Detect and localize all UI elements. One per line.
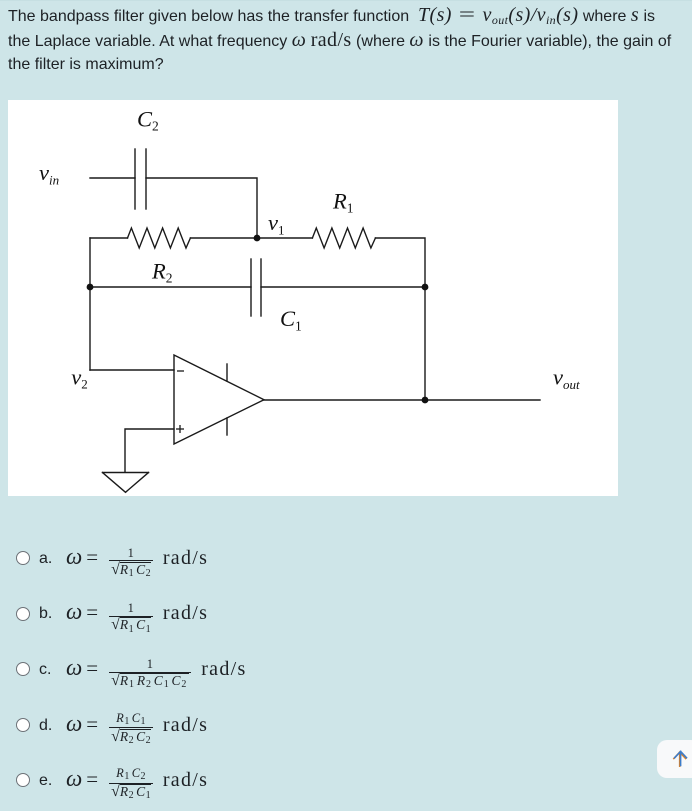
wire v1 to R1 [257,237,312,239]
svg-text:R2: R2 [151,258,173,285]
op-amp U1 [174,355,264,444]
op-amp power pin top [226,364,228,381]
svg-text:vin: vin [39,160,59,187]
option d [0,724,692,726]
resistor R2 [128,228,191,248]
svg-text:C2: C2 [137,106,159,133]
top hairline [0,0,692,1]
op-amp output wire [264,399,540,401]
right rail vertical [424,287,426,400]
wire R2 to v1 [190,237,257,239]
back to top button [657,740,692,778]
op-amp minus sign [177,370,184,372]
node right upper dot [422,284,429,291]
resistor R1 [312,228,375,248]
wire R1 to right rail [375,238,425,287]
wire v2 to op-amp minus [90,369,174,371]
svg-text:v2: v2 [71,364,88,391]
option b [0,613,692,615]
wire plus input [125,429,174,472]
question text [8,4,684,77]
capacitor C2 [134,149,136,209]
op-amp power pin bottom [226,418,228,435]
svg-text:C1: C1 [280,306,302,333]
wire left rail top to R2 [90,237,128,239]
wire C2 to v1 rail [146,178,257,238]
ground [103,472,149,474]
wire C1 to right rail [261,286,425,288]
svg-text:R1: R1 [332,188,354,215]
option c [0,668,692,670]
op-amp plus sign [176,425,184,433]
capacitor C1 [250,259,252,316]
node left dot [87,284,94,291]
wire vin to C2 [90,177,135,179]
circuit white panel [8,100,618,496]
svg-text:v1: v1 [268,210,285,237]
svg-text:vout: vout [553,365,580,392]
option a [0,557,692,559]
node v1 dot [254,235,261,242]
node output dot [422,397,429,404]
wire left dot to C1 [90,286,251,288]
option e [0,779,692,781]
left rail vertical [89,238,91,370]
